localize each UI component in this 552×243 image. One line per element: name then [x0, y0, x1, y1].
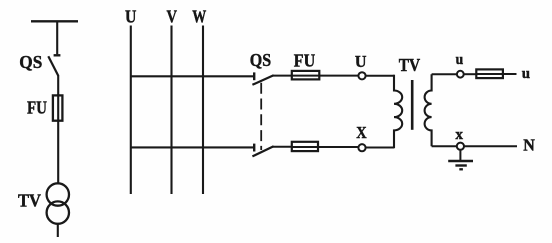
wire below TV [57, 223, 59, 237]
wire node X to primary winding [366, 147, 395, 149]
disconnector QS (left): fixed contact tick [54, 54, 61, 56]
primary winding of TV (right) [394, 75, 402, 148]
svg-text:X: X [356, 123, 366, 142]
wire busbar to QS contact [56, 21, 58, 54]
svg-text:u: u [522, 66, 530, 82]
node x terminal circle [457, 143, 464, 150]
svg-text:W: W [192, 6, 206, 26]
fuse FU (upper right) body [292, 71, 320, 80]
wire secondary top to node u [432, 73, 457, 75]
transformer core [411, 80, 414, 130]
voltage transformer TV (left) upper circle [47, 183, 69, 205]
fuse (lower right) body [292, 142, 318, 151]
svg-text:U: U [125, 7, 136, 27]
wire lower tap from U to QS [131, 146, 254, 148]
wire upper fuse to node U [291, 75, 358, 77]
ground bar 1 [448, 160, 473, 163]
svg-text:FU: FU [27, 98, 47, 118]
svg-text:FU: FU [294, 50, 315, 70]
voltage transformer TV (left) lower circle [47, 201, 69, 223]
ground stub wire [459, 150, 461, 161]
ground bar 2 [455, 164, 466, 166]
disconnector QS (right) lower blade [252, 146, 273, 156]
svg-text:QS: QS [250, 50, 271, 70]
svg-text:N: N [523, 135, 535, 154]
wire through secondary fuse [476, 73, 517, 75]
wire lower fuse to node X [291, 146, 358, 148]
svg-text:x: x [455, 127, 463, 143]
disconnector QS (right) upper blade [252, 75, 273, 85]
svg-text:QS: QS [19, 52, 42, 72]
wire upper blade to fuse [273, 75, 292, 77]
phase line W [202, 26, 204, 195]
wire QS to fuse [57, 75, 59, 95]
ground bar 3 [459, 168, 463, 170]
svg-text:TV: TV [399, 55, 421, 75]
svg-text:u: u [456, 52, 464, 68]
busbar (top-left horizontal bar) [31, 20, 78, 22]
svg-text:U: U [355, 52, 367, 71]
node u terminal circle [457, 71, 464, 78]
wire secondary bottom to node x and N [432, 145, 517, 147]
svg-text:V: V [167, 6, 178, 26]
dashed mechanical link of QS poles [260, 83, 262, 150]
node U terminal circle [358, 72, 365, 79]
disconnector QS (right) lower fixed contact tick [253, 144, 255, 152]
phase line V [170, 26, 172, 195]
svg-text:TV: TV [18, 190, 41, 210]
disconnector QS (left): blade [48, 56, 58, 75]
disconnector QS (right) upper fixed contact tick [253, 72, 255, 80]
wire node U to primary winding [366, 75, 395, 77]
node X terminal circle [358, 144, 365, 151]
phase line U [130, 26, 132, 195]
wire upper tap from U to QS [131, 75, 254, 77]
wire node u to secondary fuse [464, 73, 476, 75]
wire lower blade to fuse [273, 146, 292, 148]
fuse FU (left) body [53, 95, 63, 120]
fuse (secondary) body [476, 69, 503, 78]
secondary winding of TV (right) [425, 74, 432, 146]
wire through fuse down to TV [57, 94, 59, 184]
